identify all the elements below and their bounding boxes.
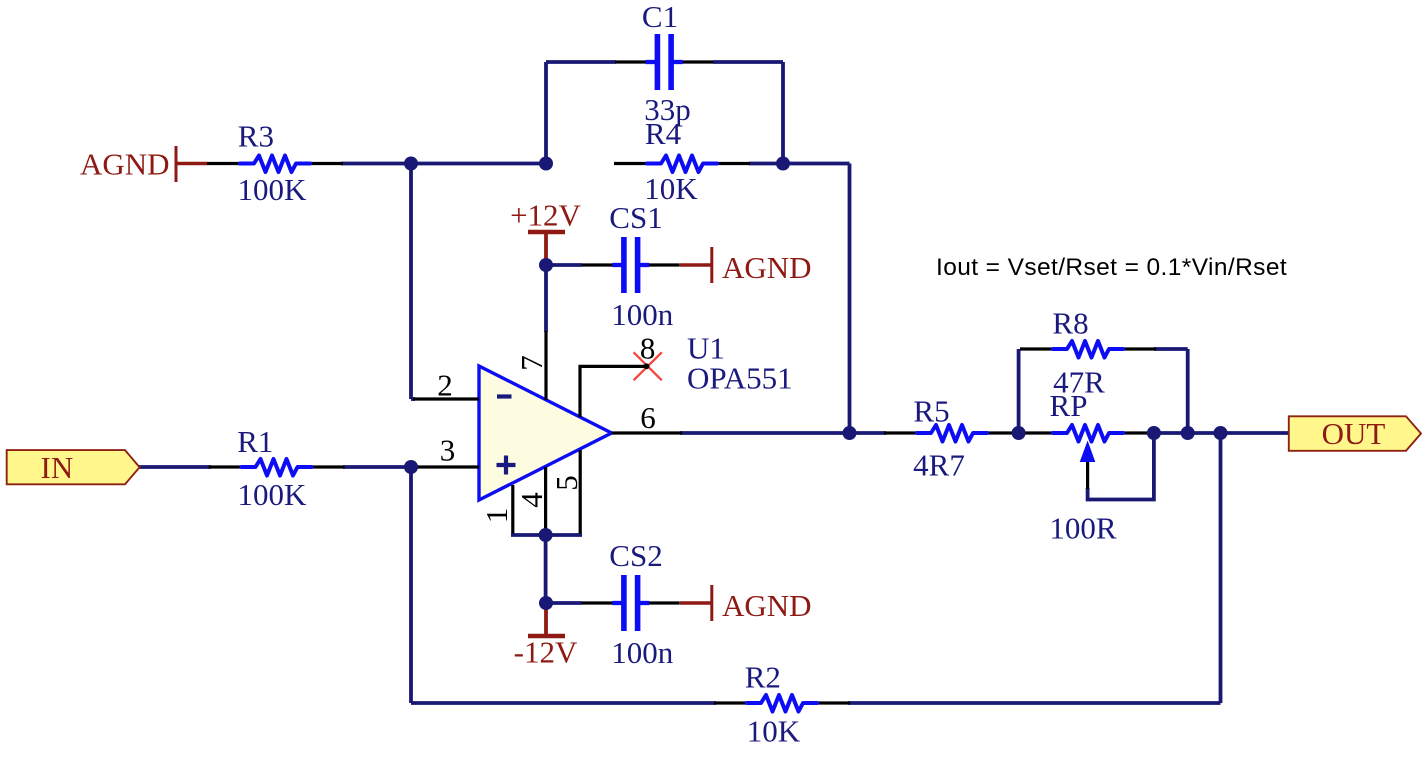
U1 pin 8 lead (no connect) [580, 366, 648, 417]
wire RP wiper return [1088, 435, 1154, 500]
svg-text:CS2: CS2 [609, 538, 662, 573]
wire pin1-4-5 bus [511, 533, 582, 537]
resistor R2 [714, 695, 850, 712]
svg-text:2: 2 [437, 368, 453, 403]
wire node to inverting input (vertical) [409, 164, 413, 400]
svg-text:Iout = Vset/Rset = 0.1*Vin/Rse: Iout = Vset/Rset = 0.1*Vin/Rset [936, 254, 1287, 281]
svg-text:R8: R8 [1052, 306, 1088, 341]
svg-text:-12V: -12V [514, 635, 578, 670]
svg-text:R3: R3 [238, 119, 274, 154]
power port AGND (at CS1) [680, 247, 812, 285]
wire IN to R1 [139, 465, 211, 469]
U1 pin 3 lead [417, 465, 479, 468]
svg-text:R5: R5 [913, 394, 949, 429]
svg-text:R2: R2 [745, 659, 781, 694]
junction node R3/C1 left [404, 157, 418, 171]
svg-text:OPA551: OPA551 [687, 361, 793, 396]
junction node output / feedback [843, 426, 857, 440]
U1 pin 4 lead [544, 467, 547, 534]
wire R8 right vertical [1186, 349, 1190, 433]
svg-text:7: 7 [514, 355, 549, 371]
junction node +12V / CS1 [539, 258, 553, 272]
svg-text:100R: 100R [1049, 511, 1117, 546]
svg-text:10K: 10K [747, 713, 801, 748]
wire C1 top right [713, 60, 783, 64]
capacitor CS2 [582, 575, 680, 631]
wire output node down to R2 (vertical) [1219, 433, 1223, 703]
resistor R8 [1020, 341, 1156, 358]
wire C1 left vertical [544, 62, 548, 164]
svg-text:CS1: CS1 [609, 200, 662, 235]
wire +12V node to CS1 [546, 263, 582, 267]
wire C1 top left [546, 60, 616, 64]
U1 pin 5 lead [579, 450, 582, 534]
power port -12V [514, 603, 578, 670]
svg-text:100K: 100K [237, 172, 307, 207]
svg-text:6: 6 [640, 400, 656, 435]
resistor R3 [207, 156, 343, 173]
U1 pin 2 lead [413, 397, 479, 400]
wire R8 left vertical [1017, 349, 1021, 433]
svg-text:IN: IN [41, 450, 74, 485]
wire bus down to CS2 node [544, 535, 548, 603]
junction node CS2 / -12V [539, 596, 553, 610]
svg-text:5: 5 [549, 475, 584, 491]
svg-text:100K: 100K [238, 477, 308, 512]
wire R2 left [411, 701, 716, 705]
svg-text:R1: R1 [237, 424, 273, 459]
svg-text:C1: C1 [642, 0, 678, 34]
svg-text:100n: 100n [611, 297, 674, 332]
svg-text:AGND: AGND [722, 250, 812, 285]
junction node OUT / R2 [1214, 426, 1228, 440]
junction node R5 / R8 / RP [1012, 426, 1026, 440]
junction node C1 right / R4 [776, 157, 790, 171]
wire R8 right stub [1154, 347, 1188, 351]
resistor R5 [884, 425, 1020, 442]
wire feedback vertical to output row [848, 164, 852, 434]
wire output row RP right to OUT [1150, 431, 1289, 435]
svg-text:R4: R4 [645, 116, 682, 151]
U1 pin 7 lead [544, 331, 547, 400]
junction node R8 right [1181, 426, 1195, 440]
capacitor C1 [615, 34, 713, 90]
resistor R1 [209, 459, 345, 476]
svg-text:AGND: AGND [722, 588, 812, 623]
junction node pin bus [539, 528, 553, 542]
capacitor CS1 [582, 237, 680, 293]
wire pin3 node down to R2 (vertical) [409, 467, 413, 703]
no-connect X on pin 8 [634, 352, 662, 380]
power port AGND (at CS2) [680, 585, 812, 623]
svg-text:1: 1 [479, 508, 514, 524]
svg-text:100n: 100n [611, 635, 674, 670]
svg-text:4R7: 4R7 [913, 448, 965, 483]
wire R1 to pin 3 node [343, 465, 418, 469]
junction node pin3 / R1 / R2 [404, 460, 418, 474]
svg-text:OUT: OUT [1322, 416, 1386, 451]
wire output pin 6 to feedback node [680, 431, 850, 435]
wire to pin 2 [411, 397, 415, 401]
U1 pin 6 lead [612, 431, 682, 434]
wire C1 right vertical [781, 62, 785, 164]
resistor R4 [614, 156, 750, 173]
wire R2 right [848, 701, 1221, 705]
wire output row R5 left [850, 431, 887, 435]
wire +12V node down to pin 7 [544, 262, 548, 332]
potentiometer RP [1020, 425, 1152, 489]
port OUT [1289, 416, 1421, 451]
port IN [7, 450, 140, 485]
power port AGND (left) [80, 146, 207, 182]
svg-text:4: 4 [514, 492, 549, 508]
wire CS2 node right [546, 601, 582, 605]
svg-text:RP: RP [1050, 388, 1088, 423]
junction node C1 left / R4 [539, 157, 553, 171]
junction node RP right [1147, 426, 1161, 440]
power port +12V [510, 198, 581, 264]
svg-text:AGND: AGND [80, 147, 170, 182]
wire R3 to C1/R4 node [341, 162, 548, 166]
svg-text:+12V: +12V [510, 198, 581, 233]
wire R4 right [749, 162, 850, 166]
U1 pin 1 lead [511, 485, 514, 534]
op-amp U1 [479, 366, 612, 500]
svg-text:3: 3 [440, 433, 456, 468]
